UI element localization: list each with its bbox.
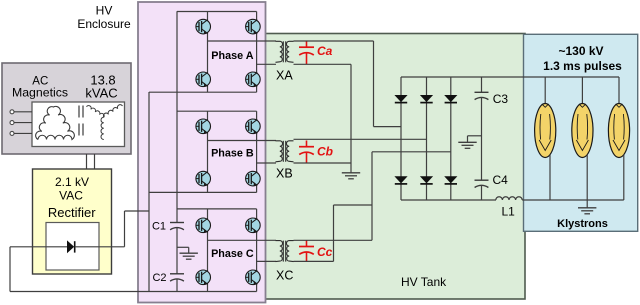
- phase C top rail: [177, 208, 257, 210]
- inductor L1: [496, 197, 522, 200]
- AC Magnetics box: [2, 63, 131, 154]
- transistor Q3: [196, 72, 211, 87]
- wire XB secondary top to bottom diode column 2: [294, 138, 427, 140]
- transistor Q12: [246, 270, 261, 285]
- transformer XB: [276, 141, 294, 162]
- svg-text:Rectifier: Rectifier: [48, 205, 96, 220]
- wire bottom DC- rail: [10, 291, 257, 293]
- wye winding: [87, 106, 105, 118]
- wire phase C right leg: [256, 209, 258, 219]
- klystron K1: [535, 104, 556, 158]
- wire rectifier DC- down-left: [9, 247, 11, 292]
- svg-text:C4: C4: [493, 173, 509, 187]
- wire klystron K2 anode lead: [581, 77, 583, 104]
- Klystrons enclosure box: [524, 34, 638, 231]
- wire phase B right leg: [256, 111, 258, 120]
- wire klystron K2 cathode lead: [586, 155, 588, 201]
- capacitor C3: [481, 77, 483, 92]
- wire C4 to bottom rail: [481, 185, 483, 200]
- ground (HV enclosure): [177, 246, 189, 248]
- wire C3 to C4: [481, 97, 483, 180]
- svg-text:C2: C2: [152, 272, 166, 284]
- diode D6: [444, 176, 457, 184]
- wire klystron K1 anode lead: [544, 77, 546, 104]
- svg-text:VAC: VAC: [59, 189, 83, 203]
- klystron K2: [572, 104, 593, 158]
- wire phase A right midpoint to transformer primary bottom: [257, 63, 276, 65]
- svg-text:Klystrons: Klystrons: [557, 218, 608, 230]
- svg-text:Phase C: Phase C: [211, 248, 254, 260]
- transistor Q6: [246, 119, 261, 134]
- wire XB secondary bottom: [294, 162, 352, 164]
- svg-text:XC: XC: [276, 268, 293, 282]
- svg-text:Cb: Cb: [317, 145, 333, 159]
- wire AC box to rectifier right: [94, 154, 96, 169]
- svg-text:C3: C3: [493, 92, 509, 106]
- transistor Q7: [196, 171, 211, 186]
- wire: [14, 122, 32, 124]
- svg-text:2.1 kV: 2.1 kV: [55, 175, 89, 189]
- wire diode to box edge: [75, 246, 99, 248]
- wire phase A right leg: [256, 12, 258, 21]
- svg-text:Ca: Ca: [317, 44, 333, 58]
- ground (tank left): [342, 173, 360, 179]
- wire XC secondary loop segment: [333, 205, 335, 261]
- wire klystron K1 cathode lead: [549, 155, 551, 201]
- wire XA secondary bottom to ground: [294, 63, 352, 65]
- diode D4: [394, 176, 407, 184]
- delta winding: [36, 106, 75, 139]
- transistor Q5: [196, 119, 211, 134]
- svg-text:Enclosure: Enclosure: [77, 17, 131, 31]
- capacitor Cb (red): [306, 141, 308, 147]
- wire diode column x=450.8: [450, 77, 452, 200]
- capacitor C1: [170, 223, 184, 230]
- svg-text:1.3 ms pulses: 1.3 ms pulses: [543, 59, 622, 73]
- wire phase B left leg: [207, 111, 209, 120]
- Rectifier box: [33, 169, 112, 274]
- wire: [14, 111, 32, 113]
- input terminal 2: [10, 121, 14, 125]
- transformer inner white box: [32, 102, 125, 147]
- rectifier inner white box: [46, 223, 99, 271]
- transistor Q11: [196, 270, 211, 285]
- wire XC secondary top to bottom diode column 3: [294, 239, 373, 241]
- wire diode column x=401: [400, 77, 402, 200]
- diode D1: [394, 95, 407, 103]
- transistor Q4: [246, 72, 261, 87]
- transistor Q9: [196, 218, 211, 233]
- wire klystron K3 anode lead: [618, 77, 620, 104]
- svg-text:~130 kV: ~130 kV: [558, 44, 603, 58]
- phase B bottom rail: [149, 191, 257, 193]
- phase A bottom rail: [149, 91, 257, 93]
- rectifier diode D7: [67, 240, 74, 253]
- phase B top rail: [177, 110, 257, 112]
- wire into rectifier (AC input): [10, 246, 67, 248]
- capacitor Ca (red): [306, 41, 308, 47]
- diode D2: [420, 95, 433, 103]
- svg-text:Phase A: Phase A: [211, 50, 253, 62]
- bus wire V2 (left inner bus): [176, 11, 178, 222]
- wire phase B midpoint to transformer primary top: [208, 140, 277, 142]
- wire L1 to klystron rail: [522, 199, 624, 201]
- wire phase A midpoint to transformer primary top: [208, 40, 277, 42]
- wire: [14, 132, 32, 134]
- transformer XC: [276, 241, 294, 262]
- wire rectifier DC+ out: [99, 246, 125, 248]
- wire HV- bottom rail: [401, 199, 496, 201]
- transistor Q8: [246, 171, 261, 186]
- ground (tank mid): [468, 135, 482, 137]
- diode D5: [420, 176, 433, 184]
- transistor Q2: [246, 19, 261, 34]
- transformer XA: [276, 41, 294, 62]
- diode D3: [444, 95, 457, 103]
- bus wire V1 (outer left bus): [148, 92, 150, 292]
- input terminal 3: [10, 131, 14, 135]
- wire C1 bottom to ground tap and C2: [176, 228, 178, 274]
- capacitor C4: [475, 180, 489, 187]
- svg-text:HV Tank: HV Tank: [401, 275, 447, 289]
- HV Enclosure box: [138, 2, 266, 303]
- wire phase C right midpoint to transformer primary bottom: [257, 260, 276, 262]
- wire phase C midpoint to transformer primary top: [208, 239, 277, 241]
- svg-text:Cc: Cc: [317, 245, 333, 259]
- ground (klystrons): [586, 200, 588, 208]
- klystron K3: [608, 104, 629, 158]
- capacitor C2: [170, 274, 184, 281]
- wire XC secondary bottom: [294, 260, 334, 262]
- svg-text:Magnetics: Magnetics: [12, 86, 68, 100]
- wire AC box to rectifier left: [86, 154, 88, 169]
- transformer core bars: [78, 106, 80, 118]
- wire diode column x=426.5: [426, 77, 428, 200]
- wire XA secondary top to bottom diode column 1: [294, 40, 374, 42]
- transistor Q10: [246, 218, 261, 233]
- svg-text:L1: L1: [502, 204, 516, 218]
- svg-text:Phase B: Phase B: [211, 148, 254, 160]
- wire HV+ top rail: [401, 76, 619, 78]
- transistor Q1: [196, 19, 211, 34]
- capacitor Cc (red): [306, 240, 308, 246]
- svg-text:XB: XB: [276, 167, 293, 181]
- input terminal 1: [10, 110, 14, 114]
- svg-text:HV: HV: [96, 3, 113, 17]
- wire phase C left leg: [207, 209, 209, 219]
- svg-text:XA: XA: [276, 68, 293, 82]
- svg-text:C1: C1: [152, 221, 166, 233]
- wire phase A left leg: [207, 12, 209, 21]
- wire C2 to bottom rail: [176, 279, 178, 292]
- phase A top rail: [177, 11, 257, 13]
- wire klystron K3 cathode lead: [623, 155, 625, 201]
- svg-text:kVAC: kVAC: [85, 86, 117, 101]
- wire phase B right midpoint to transformer primary bottom: [257, 162, 276, 164]
- HV Tank enclosure box: [264, 34, 525, 300]
